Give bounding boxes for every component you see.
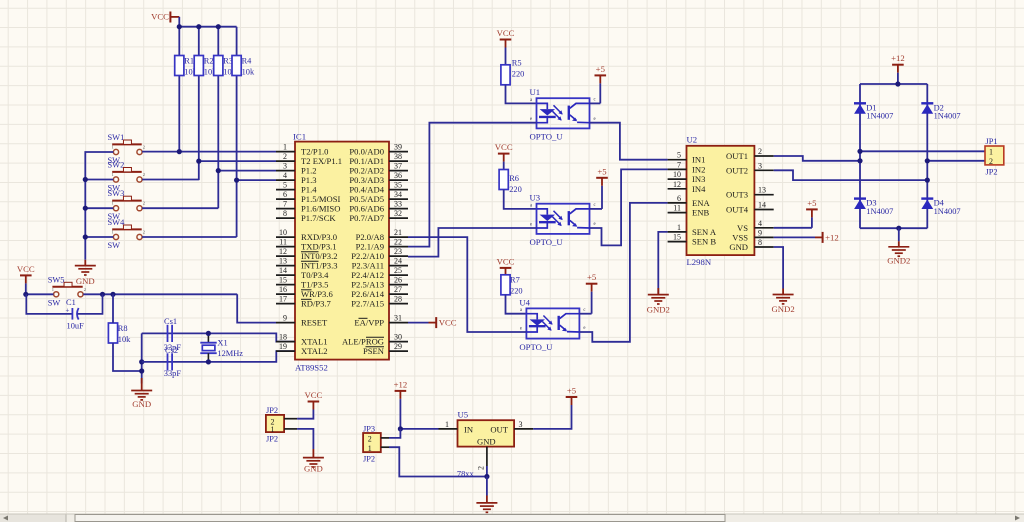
pin 21 P2.0/A8 xyxy=(356,228,408,242)
pin 22 P2.1/A9 xyxy=(356,238,408,252)
connector JP1 xyxy=(985,137,1004,177)
svg-text:8: 8 xyxy=(758,238,762,247)
svg-text:ENB: ENB xyxy=(692,208,709,218)
wire U4 cathode to P2.0 xyxy=(408,237,526,332)
svg-text:6: 6 xyxy=(283,190,287,199)
svg-text:WR/P3.6: WR/P3.6 xyxy=(301,289,333,299)
svg-text:ENA: ENA xyxy=(692,198,710,208)
wire SW2 jog to pin2 xyxy=(142,161,276,179)
wire crystal ground rail xyxy=(139,333,144,383)
pin 13 INT1/P3.3 xyxy=(276,257,338,271)
svg-text:12MHz: 12MHz xyxy=(217,349,243,358)
wire switch left bus xyxy=(85,152,113,260)
svg-text:OUT1: OUT1 xyxy=(726,151,748,161)
svg-text:R5: R5 xyxy=(512,58,522,67)
pin 35 P0.4/AD4 xyxy=(349,181,408,195)
svg-text:VCC: VCC xyxy=(497,28,515,38)
svg-text:P1.7/SCK: P1.7/SCK xyxy=(301,213,336,223)
wire R7 to U4 anode xyxy=(506,295,527,314)
ground GND jp2 xyxy=(303,449,324,474)
ic U5 regulator 78xx xyxy=(458,410,515,447)
svg-text:5: 5 xyxy=(677,151,681,160)
svg-text:GND: GND xyxy=(76,276,95,286)
junction dots VCC bus xyxy=(177,24,221,29)
power +5 u5 xyxy=(566,386,578,407)
svg-text:13: 13 xyxy=(279,257,287,266)
wire OUT2 to bridge xyxy=(774,170,928,180)
svg-text:SW3: SW3 xyxy=(108,189,125,198)
svg-text:c: c xyxy=(594,98,596,103)
svg-text:OPTO_U: OPTO_U xyxy=(519,342,553,352)
svg-text:1: 1 xyxy=(112,145,114,150)
svg-text:e: e xyxy=(594,117,596,122)
svg-text:P0.1/AD1: P0.1/AD1 xyxy=(349,156,384,166)
pin 1 T2/P1.0 xyxy=(276,143,328,157)
svg-text:11: 11 xyxy=(673,204,681,213)
pin 1 SEN A xyxy=(668,223,717,237)
diode D4 xyxy=(921,199,960,216)
svg-text:1N4007: 1N4007 xyxy=(934,207,961,216)
svg-text:PSEN: PSEN xyxy=(363,346,385,356)
power VCC top-left xyxy=(151,12,179,23)
pin 28 P2.7/A15 xyxy=(351,295,408,309)
capacitor C1 xyxy=(26,294,102,330)
svg-text:16: 16 xyxy=(279,285,287,294)
svg-text:Cs2: Cs2 xyxy=(165,346,178,355)
pin 27 P2.6/A14 xyxy=(351,285,408,299)
power VCC at EA/VPP xyxy=(408,322,429,324)
svg-text:GND: GND xyxy=(132,399,151,409)
wire u5 gnd down xyxy=(486,477,488,496)
pin 26 P2.5/A13 xyxy=(351,276,408,290)
crystal X1 xyxy=(200,331,243,365)
svg-text:INT0/P3.2: INT0/P3.2 xyxy=(301,251,338,261)
wire +12 to U5 IN xyxy=(400,400,438,429)
pin 17 RD/P3.7 xyxy=(276,295,332,309)
node R4/pin4 xyxy=(234,178,239,183)
svg-text:e: e xyxy=(530,117,532,122)
svg-text:27: 27 xyxy=(394,285,402,294)
svg-text:U5: U5 xyxy=(458,410,469,420)
pin 7 IN2 xyxy=(668,160,706,174)
capacitor Cs2 xyxy=(164,346,182,378)
svg-text:P1.2: P1.2 xyxy=(301,166,317,176)
pin 13 OUT3 xyxy=(726,186,774,200)
pin 19 XTAL2 xyxy=(276,342,328,356)
optocoupler U4 xyxy=(519,297,585,352)
pin 3 P1.2 xyxy=(276,162,317,176)
svg-text:P0.0/AD0: P0.0/AD0 xyxy=(349,147,384,157)
svg-text:P0.6/AD6: P0.6/AD6 xyxy=(349,204,384,214)
svg-text:P2.4/A12: P2.4/A12 xyxy=(351,270,384,280)
svg-text:+5: +5 xyxy=(567,386,576,396)
svg-text:OUT4: OUT4 xyxy=(726,205,749,215)
ground GND2 bridge xyxy=(898,228,900,241)
svg-text:T0/P3.4: T0/P3.4 xyxy=(301,270,329,280)
wire U1 cathode to P2.1 xyxy=(408,123,537,247)
svg-text:14: 14 xyxy=(279,266,287,275)
optocoupler U3 xyxy=(530,193,596,248)
svg-text:P2.3/A11: P2.3/A11 xyxy=(352,261,384,271)
resistor R2 xyxy=(194,56,217,77)
connector JP3 xyxy=(363,425,381,464)
svg-text:IN: IN xyxy=(464,424,474,434)
node R1/pin1 xyxy=(177,149,182,154)
svg-text:c: c xyxy=(583,308,585,313)
svg-text:1N4007: 1N4007 xyxy=(934,112,961,121)
svg-text:INT1/P3.3: INT1/P3.3 xyxy=(301,261,338,271)
svg-text:c: c xyxy=(594,203,596,208)
svg-text:39: 39 xyxy=(394,143,402,152)
svg-text:R6: R6 xyxy=(509,174,519,183)
resistor R7 xyxy=(501,275,523,296)
svg-text:OUT2: OUT2 xyxy=(726,165,748,175)
wire JP1 pin2 row xyxy=(927,160,985,162)
svg-text:GND2: GND2 xyxy=(772,304,795,314)
svg-text:JP1: JP1 xyxy=(986,137,998,146)
svg-text:22: 22 xyxy=(394,238,402,247)
svg-text:Cs1: Cs1 xyxy=(164,317,177,326)
pin 9 RESET xyxy=(276,314,328,328)
svg-text:OUT3: OUT3 xyxy=(726,190,748,200)
node out A xyxy=(857,149,862,164)
svg-text:28: 28 xyxy=(394,295,402,304)
pin 10 IN3 xyxy=(668,170,706,184)
svg-text:10uF: 10uF xyxy=(67,322,85,331)
svg-text:IN1: IN1 xyxy=(692,155,705,165)
svg-text:GND: GND xyxy=(304,464,323,474)
svg-text:P0.3/AD3: P0.3/AD3 xyxy=(349,175,384,185)
power VCC reset xyxy=(17,264,35,294)
pin 38 P0.1/AD1 xyxy=(349,152,408,166)
svg-text:e: e xyxy=(520,326,522,331)
svg-text:1: 1 xyxy=(112,230,114,235)
svg-text:220: 220 xyxy=(510,287,523,296)
svg-text:1: 1 xyxy=(989,147,993,156)
pin 2 T2 EX/P1.1 xyxy=(276,152,342,166)
power VCC above R5 xyxy=(497,28,515,65)
svg-text:1: 1 xyxy=(271,425,275,434)
svg-text:18: 18 xyxy=(279,333,287,342)
pin 15 T1/P3.5 xyxy=(276,276,328,290)
scrollbar xyxy=(0,514,1024,522)
svg-text:4: 4 xyxy=(283,171,287,180)
svg-text:30: 30 xyxy=(394,333,402,342)
svg-text:33pF: 33pF xyxy=(164,369,182,378)
svg-text:7: 7 xyxy=(283,200,287,209)
wire VS to +5 xyxy=(774,218,812,227)
pin 4 P1.3 xyxy=(276,171,317,185)
svg-text:GND2: GND2 xyxy=(887,256,910,266)
svg-text:12: 12 xyxy=(673,180,681,189)
svg-text:12: 12 xyxy=(279,247,287,256)
pin 29 PSEN xyxy=(363,342,408,356)
svg-text:VCC: VCC xyxy=(151,12,169,22)
svg-text:2: 2 xyxy=(143,145,145,150)
node u5 gnd xyxy=(484,474,489,479)
node u5 in xyxy=(398,426,403,431)
svg-text:P0.7/AD7: P0.7/AD7 xyxy=(349,213,384,223)
wire OUT1 to bridge xyxy=(774,156,860,161)
svg-text:34: 34 xyxy=(394,190,402,199)
pin 30 ALE/PROG xyxy=(342,333,408,347)
svg-text:R1: R1 xyxy=(184,57,194,66)
svg-text:25: 25 xyxy=(394,266,402,275)
svg-text:R4: R4 xyxy=(242,57,253,66)
svg-text:1: 1 xyxy=(112,201,114,206)
pin 2 OUT1 xyxy=(726,147,774,161)
connector JP2 xyxy=(266,406,284,444)
svg-text:3: 3 xyxy=(758,161,762,170)
wire VSS to +12 xyxy=(774,236,815,238)
svg-text:VCC: VCC xyxy=(495,142,513,152)
svg-text:RD/P3.7: RD/P3.7 xyxy=(301,299,332,309)
svg-text:U4: U4 xyxy=(519,297,530,307)
pin 15 SEN B xyxy=(668,233,717,247)
svg-text:17: 17 xyxy=(279,295,287,304)
pin 11 TXD/P3.1 xyxy=(276,238,337,252)
svg-text:24: 24 xyxy=(394,257,402,266)
pin 23 P2.2/A10 xyxy=(351,247,408,261)
svg-text:U1: U1 xyxy=(530,87,541,97)
svg-text:JP2: JP2 xyxy=(986,168,998,177)
power VCC jp2 xyxy=(304,390,322,411)
wire U3 emitter to U2 IN2 xyxy=(590,169,668,245)
svg-text:R8: R8 xyxy=(118,324,128,333)
svg-text:JP2: JP2 xyxy=(266,406,278,415)
svg-text:29: 29 xyxy=(394,342,402,351)
wire bridge rails xyxy=(860,84,927,228)
svg-text:4: 4 xyxy=(758,219,762,228)
svg-text:2: 2 xyxy=(368,434,372,443)
power VCC above R6 xyxy=(495,142,513,169)
pin 11 ENB xyxy=(668,204,710,218)
svg-text:R7: R7 xyxy=(510,276,520,285)
svg-text:P0.2/AD2: P0.2/AD2 xyxy=(349,166,384,176)
wire JP2 pin2 to VCC xyxy=(297,411,313,419)
svg-text:P1.5/MOSI: P1.5/MOSI xyxy=(301,194,341,204)
svg-text:SW1: SW1 xyxy=(108,133,125,142)
svg-text:11: 11 xyxy=(279,238,287,247)
svg-text:220: 220 xyxy=(512,69,525,78)
resistor R5 xyxy=(501,58,524,85)
svg-text:VCC: VCC xyxy=(17,264,35,274)
wire JP1 pin1 row xyxy=(860,150,985,152)
svg-text:IN3: IN3 xyxy=(692,174,705,184)
svg-text:+12: +12 xyxy=(891,53,905,63)
svg-text:SW: SW xyxy=(48,298,61,307)
svg-text:1: 1 xyxy=(445,420,449,429)
wire reset net xyxy=(26,294,276,322)
svg-text:1: 1 xyxy=(368,444,372,453)
svg-text:3: 3 xyxy=(519,420,523,429)
svg-text:OPTO_U: OPTO_U xyxy=(530,237,564,247)
svg-text:2: 2 xyxy=(283,152,287,161)
svg-text:2: 2 xyxy=(143,201,145,206)
svg-text:8: 8 xyxy=(283,209,287,218)
power VCC above R7 xyxy=(497,256,515,274)
svg-text:VCC: VCC xyxy=(439,318,457,328)
pin 34 P0.5/AD5 xyxy=(349,190,408,204)
power +12 bridge xyxy=(891,53,905,84)
pin 3 OUT xyxy=(514,420,533,429)
svg-text:P2.1/A9: P2.1/A9 xyxy=(356,242,384,252)
svg-text:+: + xyxy=(66,307,70,315)
svg-text:e: e xyxy=(583,326,585,331)
resistor R1 xyxy=(175,56,198,77)
svg-text:L298N: L298N xyxy=(687,257,712,267)
pin 5 IN1 xyxy=(668,151,706,165)
svg-text:SW2: SW2 xyxy=(108,161,125,170)
ground GND u5 xyxy=(476,496,497,513)
pin 24 P2.3/A11 xyxy=(352,257,408,271)
svg-text:23: 23 xyxy=(394,247,402,256)
svg-text:1: 1 xyxy=(112,172,114,177)
resistor R3 xyxy=(214,56,237,77)
svg-text:JP2: JP2 xyxy=(363,455,375,464)
svg-text:P0.5/AD5: P0.5/AD5 xyxy=(349,194,384,204)
wire U2 GND to ground xyxy=(774,247,783,289)
svg-text:VCC: VCC xyxy=(497,256,515,266)
svg-text:6: 6 xyxy=(677,194,681,203)
pin 37 P0.2/AD2 xyxy=(349,162,408,176)
pin 1 JP3 xyxy=(381,446,389,448)
svg-text:+12: +12 xyxy=(825,232,839,242)
svg-text:220: 220 xyxy=(509,185,522,194)
svg-text:P2.6/A14: P2.6/A14 xyxy=(351,289,384,299)
svg-text:36: 36 xyxy=(394,171,402,180)
svg-text:1: 1 xyxy=(52,287,54,292)
svg-text:32: 32 xyxy=(394,209,402,218)
svg-text:15: 15 xyxy=(279,276,287,285)
svg-text:2: 2 xyxy=(143,230,145,235)
svg-text:P1.6/MISO: P1.6/MISO xyxy=(301,204,340,214)
svg-text:+5: +5 xyxy=(597,166,606,176)
svg-text:SW: SW xyxy=(108,241,121,250)
node R3/pin3 xyxy=(216,168,221,173)
svg-text:10: 10 xyxy=(279,228,287,237)
pin 25 P2.4/A12 xyxy=(351,266,408,280)
svg-text:SEN B: SEN B xyxy=(692,237,716,247)
capacitor Cs1 xyxy=(164,317,182,352)
svg-text:IC1: IC1 xyxy=(293,132,306,142)
svg-text:2: 2 xyxy=(477,466,486,470)
node bridge bottom xyxy=(896,226,901,231)
switch SW3 xyxy=(108,189,145,221)
svg-text:P2.7/A15: P2.7/A15 xyxy=(351,299,384,309)
svg-text:T2/P1.0: T2/P1.0 xyxy=(301,147,328,157)
pin 6 ENA xyxy=(668,194,711,208)
svg-text:19: 19 xyxy=(279,342,287,351)
svg-text:GND2: GND2 xyxy=(647,305,670,315)
svg-text:U2: U2 xyxy=(687,135,698,145)
svg-text:EA/VPP: EA/VPP xyxy=(354,318,384,328)
svg-text:XTAL1: XTAL1 xyxy=(301,337,328,347)
svg-text:5: 5 xyxy=(283,181,287,190)
wire SW4 jog to pin4 xyxy=(142,180,276,237)
svg-text:14: 14 xyxy=(758,201,766,210)
wire OUT to +5 xyxy=(533,406,571,429)
svg-text:15: 15 xyxy=(673,233,681,242)
wire R6 to U3 anode xyxy=(504,190,537,209)
pin 33 P0.6/AD6 xyxy=(349,200,408,214)
svg-text:X1: X1 xyxy=(217,339,227,348)
svg-text:C1: C1 xyxy=(66,298,76,307)
resistor R6 xyxy=(499,170,522,195)
svg-text:AT89S52: AT89S52 xyxy=(295,363,328,373)
svg-text:VSS: VSS xyxy=(732,232,748,242)
label 78xx xyxy=(457,469,475,478)
node reset junctions xyxy=(23,292,115,297)
pin 5 P1.4 xyxy=(276,181,317,195)
svg-text:T2 EX/P1.1: T2 EX/P1.1 xyxy=(301,156,342,166)
svg-text:P2.0/A8: P2.0/A8 xyxy=(356,232,384,242)
ground for switches xyxy=(75,260,96,286)
pin 39 P0.0/AD0 xyxy=(349,143,408,157)
wire U3 cathode to P2.2 xyxy=(408,228,537,257)
wire U1 emitter to U2 IN1 xyxy=(590,123,668,160)
pin 2 JP3 xyxy=(381,437,389,439)
wire SW3 jog to pin3 xyxy=(142,171,276,209)
svg-text:e: e xyxy=(594,222,596,227)
pin 2 GND xyxy=(477,447,487,477)
ground GND2 u2 xyxy=(772,289,795,315)
wire XTAL1 row xyxy=(142,333,295,341)
svg-text:OPTO_U: OPTO_U xyxy=(530,132,564,142)
svg-text:1N4007: 1N4007 xyxy=(866,112,893,121)
svg-text:e: e xyxy=(530,222,532,227)
pin 18 XTAL1 xyxy=(276,333,328,347)
switch SW1 xyxy=(108,133,145,165)
svg-text:SW4: SW4 xyxy=(108,218,126,227)
power +5 at U4 collector xyxy=(579,313,591,315)
svg-text:2: 2 xyxy=(84,287,86,292)
pin 14 T0/P3.4 xyxy=(276,266,329,280)
wire VCC bus to resistors xyxy=(179,17,236,237)
wire SW1 to IC pin1 xyxy=(142,151,276,153)
wire R5 to U1 anode xyxy=(506,85,537,104)
wire U4 emitter to U2 ENA xyxy=(579,203,667,342)
pin 8 GND xyxy=(729,238,773,252)
svg-text:2: 2 xyxy=(758,147,762,156)
node bridge top xyxy=(895,81,900,86)
svg-text:1N4007: 1N4007 xyxy=(866,207,893,216)
switch SW5 xyxy=(48,275,86,307)
svg-text:IN4: IN4 xyxy=(692,184,706,194)
svg-text:R2: R2 xyxy=(204,57,214,66)
pin 16 WR/P3.6 xyxy=(276,285,333,299)
svg-text:TXD/P3.1: TXD/P3.1 xyxy=(301,242,337,252)
pin 9 VSS xyxy=(732,228,773,242)
pin 4 VS xyxy=(737,219,774,233)
pin 12 IN4 xyxy=(668,180,706,194)
svg-text:21: 21 xyxy=(394,228,402,237)
power +12 u5 xyxy=(394,379,408,400)
svg-text:26: 26 xyxy=(394,276,402,285)
svg-text:U3: U3 xyxy=(530,193,541,203)
wire JP3 pin1 to gnd row xyxy=(389,447,487,476)
svg-text:SEN A: SEN A xyxy=(692,227,717,237)
svg-text:SW5: SW5 xyxy=(48,275,65,284)
pin 1 IN xyxy=(439,420,458,429)
diode D1 xyxy=(854,103,893,120)
svg-text:+5: +5 xyxy=(807,198,816,208)
power +5 at U1 collector xyxy=(590,102,601,104)
pin 32 P0.7/AD7 xyxy=(349,209,408,223)
pin 31 EA/VPP xyxy=(354,314,408,328)
pin 36 P0.3/AD3 xyxy=(349,171,408,185)
svg-text:35: 35 xyxy=(394,181,402,190)
